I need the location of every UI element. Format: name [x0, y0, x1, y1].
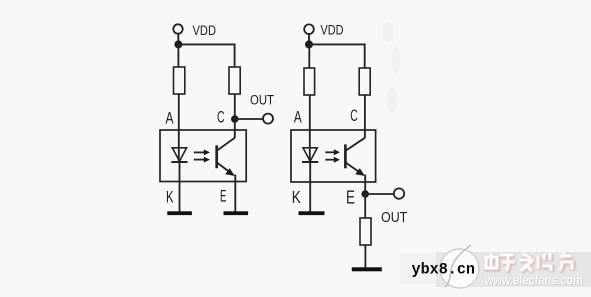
svg-text:OUT: OUT	[381, 209, 407, 226]
wire terminal to node	[308, 34, 310, 41]
svg-text:A: A	[166, 109, 174, 128]
light arrow 2	[194, 157, 210, 163]
svg-text:VDD: VDD	[193, 22, 217, 38]
LED D2 triangle	[303, 148, 317, 161]
node VDD1 junction	[174, 40, 182, 48]
watermark logo circle	[440, 249, 479, 288]
wire node down to R3	[308, 44, 310, 68]
svg-text:www.elecfans.com: www.elecfans.com	[484, 273, 583, 287]
watermark chinese char 5 (you)	[560, 253, 573, 272]
phototransistor Q2 emitter	[345, 162, 363, 175]
wire terminal to node	[177, 34, 179, 41]
svg-text:E: E	[220, 187, 226, 206]
terminal OUT2	[394, 188, 404, 198]
light arrow 4	[325, 157, 340, 163]
watermark chinese char 4 (shao)	[539, 254, 552, 272]
wire emitter to ground	[234, 175, 236, 212]
scan artifact smudge top right	[382, 22, 400, 112]
svg-text:OUT: OUT	[250, 92, 274, 107]
ground E1	[224, 211, 249, 215]
resistor R5	[360, 218, 371, 245]
svg-text:C: C	[217, 107, 225, 126]
phototransistor Q1 emitter arrowhead	[225, 168, 234, 176]
watermark chinese char 3 (fa)	[521, 255, 535, 272]
watermark band	[400, 253, 437, 284]
optocoupler U1 package box	[160, 130, 246, 182]
resistor R3	[304, 68, 315, 95]
light arrow 1	[194, 149, 210, 155]
wire R2 to node C and collector	[234, 94, 236, 138]
terminal VDD1	[173, 24, 182, 33]
node C junction	[231, 115, 239, 123]
phototransistor Q2 emitter arrowhead	[355, 168, 364, 176]
wire R3 to LED anode	[309, 95, 311, 162]
svg-text:C: C	[350, 106, 358, 125]
phototransistor Q2 base	[344, 144, 347, 168]
watermark logo swoosh	[445, 245, 471, 287]
wire LED2 cathode to ground	[309, 162, 311, 212]
ground bottom	[352, 267, 382, 271]
terminal OUT1	[263, 114, 273, 124]
LED D2 cathode bar	[302, 161, 318, 163]
resistor R2	[229, 67, 240, 94]
svg-text:E: E	[346, 187, 355, 207]
terminal VDD2	[304, 24, 314, 34]
wire node right and down to R2	[178, 44, 234, 67]
watermark chinese char 2 (zi)	[501, 256, 516, 272]
wire node E2 down to R5	[364, 194, 366, 218]
node VDD2 junction	[305, 40, 313, 48]
wire emitter to node E2	[364, 175, 366, 195]
wire node right and down to R4	[309, 44, 365, 68]
wire R5 to ground	[364, 245, 366, 268]
wire node E2 to OUT terminal	[365, 193, 394, 195]
svg-text:ybx8.cn: ybx8.cn	[412, 261, 476, 279]
ground K1	[167, 211, 192, 215]
svg-text:A: A	[294, 107, 302, 126]
wire R4 down to collector	[364, 95, 366, 138]
resistor R1	[174, 67, 185, 94]
phototransistor Q2 collector	[345, 138, 365, 151]
phototransistor Q1 base	[215, 145, 218, 168]
svg-text:K: K	[292, 187, 301, 207]
light arrow 3	[325, 149, 340, 155]
watermark chinese char 1 (dian)	[487, 253, 573, 272]
node E2 junction	[361, 190, 369, 198]
phototransistor Q1 collector	[217, 138, 235, 151]
wire node down to R1	[177, 44, 179, 67]
wire LED cathode to ground	[179, 162, 181, 212]
ground K2	[299, 211, 325, 215]
svg-text:K: K	[166, 187, 174, 206]
LED D1 cathode bar	[171, 161, 187, 163]
wire node C to OUT terminal	[235, 118, 263, 120]
LED D1 triangle	[172, 148, 186, 161]
phototransistor Q1 emitter	[217, 162, 234, 175]
resistor R4	[359, 68, 370, 95]
optocoupler U2 package box	[291, 130, 376, 182]
svg-text:VDD: VDD	[321, 22, 344, 38]
wire R1 to LED anode	[178, 94, 180, 162]
